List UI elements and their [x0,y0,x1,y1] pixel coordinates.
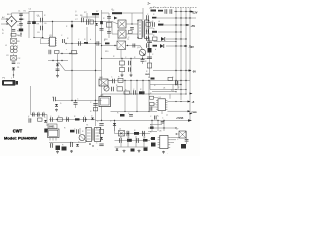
capacitor C5 bulk [37,16,43,22]
resistor R30 [153,45,158,47]
svg-text:R7: R7 [96,11,98,13]
capacitor C8 [82,18,84,22]
wire col x149.5 [149,38,151,78]
diode D9 [44,120,47,122]
capacitor C12 [97,41,99,45]
wire x150 stub [149,81,151,90]
capacitor C61 [137,138,139,143]
text label [70,142,72,144]
transistor Q6 [79,135,85,141]
wire U3 top [52,21,53,37]
resistor R45 [93,108,97,111]
text label [164,7,166,9]
wire y13b [122,8,143,20]
svg-text:L3: L3 [150,8,152,10]
svg-text:CWT: CWT [13,128,23,133]
IC U2 standby [48,129,60,141]
text +5VSB [176,118,184,120]
wire y84.5 rail [150,84,182,85]
wire T1 secondary stubs [149,22,153,34]
fuse holder block [2,80,18,86]
svg-text:T3: T3 [86,125,88,127]
text label [74,129,76,131]
text label [18,11,20,13]
capacitor CY1 [12,30,16,32]
wire T2 to Q3 [126,45,141,46]
ground drive2 [130,74,133,77]
wire mid verts [125,81,149,112]
text label [152,21,154,23]
svg-text:C2: C2 [17,25,19,27]
svg-text:GND: GND [145,74,150,76]
resistor R50 [58,118,63,121]
wire vert x87 [86,27,87,44]
wire vert x57.5 [57,54,59,75]
node dots chain [11,74,14,79]
transformer T1 core [143,21,144,38]
text label [172,77,174,79]
text under U1 [158,115,168,119]
wire y128 rail [148,127,176,129]
wire bus x186 [185,8,187,94]
svg-text:-12V: -12V [189,46,195,49]
text label [137,139,139,141]
capacitor C9 [87,19,89,25]
text note1 [75,15,78,21]
transformer T1 primary [138,20,142,39]
diode D2 [95,23,98,25]
text label [67,38,69,40]
capacitor C57 [99,144,103,146]
svg-text:c: c [66,49,67,51]
capacitor C50 [51,117,53,122]
wire Q3 down [142,56,144,64]
capacitor C26 [170,9,172,14]
text label [103,84,106,86]
ground sb4 [138,150,141,153]
text label [146,21,148,23]
text label [29,9,31,11]
svg-text:5H01: 5H01 [49,126,56,129]
resistor R18 [104,40,110,44]
resistor R39 [150,103,155,106]
text label [91,116,93,118]
svg-text:U1: U1 [163,88,165,90]
resistor R60 [131,149,135,152]
text -12V [189,46,195,49]
wire br verts [152,121,164,132]
text label [74,116,76,118]
wire y43.5 rail [71,43,101,44]
wire y100.5 rail [55,100,102,101]
wire y94.5 rail [102,93,187,94]
text label [50,116,52,118]
arrow pwrok [188,110,191,112]
wire AC line input stubs [1,16,8,25]
capacitor C19 [133,44,135,48]
wire U1 right2 [167,110,190,112]
ground drive1 [121,74,124,77]
text label [103,18,105,20]
wire T2 bottom [105,50,121,59]
capacitor C18 [130,28,134,30]
text label [145,61,147,63]
text label [111,9,113,11]
svg-text:Model: PUH400W: Model: PUH400W [4,135,37,140]
svg-text:R6: R6 [80,15,82,17]
text label [28,116,30,118]
wire rowC [164,24,189,25]
IC U3 DIP8 [48,35,57,46]
text label [144,137,146,139]
wire U6 right1 [170,137,179,142]
inductor L5 [119,131,125,137]
text label [142,132,144,134]
text label [66,49,67,51]
text +12V [192,11,198,14]
wire U1 verts [162,81,178,115]
arrow +5VSB [188,119,192,121]
ground br1 [162,151,165,154]
capacitor CX2 [11,56,21,61]
resistor R32 [147,63,151,68]
wire y91.7 rail [152,91,177,92]
wire bridge top to filter [12,13,22,16]
capacitor C4 [27,22,31,24]
capacitor C28 [153,22,155,27]
text label [150,8,152,10]
resistor R41 [117,87,123,91]
capacitor C36 [150,106,152,110]
text label [6,55,9,57]
capacitor C51 [67,117,69,122]
resistor R26 [152,17,157,19]
wire bus x181 [180,8,182,101]
text label [171,90,172,92]
capacitor C38 [113,79,115,84]
wire rowD [158,31,182,32]
resistor R43 [139,91,145,94]
wire bus x176 [175,8,177,86]
text label [52,97,54,99]
text label [134,130,136,132]
wire rowF [166,45,191,46]
resistor R59 [143,139,148,142]
text label [3,30,5,32]
svg-text:L4: L4 [158,21,160,23]
transistor Q5 [104,86,109,91]
wire y119.5 rail [49,119,96,120]
svg-text:D1: D1 [17,67,19,69]
text label [140,89,142,91]
svg-text:U7: U7 [176,129,178,131]
svg-text:R1: R1 [24,11,26,13]
capacitor C22 [129,67,131,71]
wire U1 left links [152,98,158,107]
wire bottom link [33,37,44,38]
text CWT [13,128,23,133]
text PG [192,101,195,104]
wire vert x95.5 [95,22,97,126]
resistor R40 [118,78,123,82]
capacitor C33 [147,57,152,59]
wire y58.5 rail [101,58,148,59]
wire x132 stub [131,13,133,24]
wire vert x114.5 [114,121,116,132]
wire y147 rail [115,146,149,148]
wire vert x29 [28,11,30,38]
text label [125,90,127,92]
resistor R44 [120,114,125,117]
text label [162,118,164,120]
resistor R27 [146,23,151,26]
diode D6 [161,37,165,41]
text label [113,56,115,58]
resistor R7 thick [84,12,99,15]
resistor R11 [84,42,88,44]
text label [84,39,86,41]
dot mid [75,100,76,101]
svg-text:+5VSB: +5VSB [176,118,184,120]
text label [44,15,46,17]
resistor R62 [150,127,154,129]
resistor R65 [181,144,186,149]
capacitor C14 [56,69,60,71]
text label [153,14,155,16]
diode D7 [160,44,164,48]
optocoupler U7 [179,131,186,138]
resistor R28 [152,31,157,33]
wire y70.5 rail [65,70,102,71]
arrow -5V [189,70,192,72]
capacitor C6 bulk [37,26,43,34]
resistor R58 [127,139,132,142]
text label [128,137,130,139]
varistor RV1 [11,39,21,44]
text label [153,29,155,31]
transistor Q1 [118,20,126,28]
capacitor C54 [51,143,53,148]
transistor Q3 [139,46,145,56]
text label [146,46,148,48]
capacitor C15 on x101.5 [100,29,104,31]
capacitor C2 [19,24,23,26]
resistor R17 [128,31,132,40]
wire y43 link [66,43,72,45]
wire U7 left [175,133,179,134]
text label [33,112,35,114]
arrow +12V [191,11,194,13]
text label [90,39,91,41]
resistor R61 [144,148,148,151]
text label [86,125,88,127]
dot sb [89,143,94,147]
text label [119,129,121,131]
capacitor C62 [155,116,165,124]
text label [61,35,63,37]
inductor L4 [158,24,164,26]
text label [185,132,187,134]
wire rowB [157,17,196,18]
text label [52,144,54,146]
text label [17,46,19,48]
wire y80.5 rail [108,80,190,81]
diode D13 [113,123,116,125]
capacitor C25 [165,9,167,14]
resistor R21 [120,68,125,72]
svg-text:PWR: PWR [192,112,198,114]
arrow +5out [188,101,191,103]
text label [96,143,98,145]
resistor R25 [158,10,163,12]
wire y142.5 rail [49,142,86,144]
wire y53.5 [60,53,78,54]
svg-text:U3: U3 [49,37,51,39]
text label [177,139,179,141]
capacitor C40 [134,90,136,94]
text label [150,139,152,141]
resistor R12 [55,51,60,54]
wire vert x101.5 [101,10,103,121]
svg-text:C4: C4 [29,9,31,11]
wire rowA [174,11,193,12]
wire y140.5 rail [115,140,151,142]
text label [24,11,26,13]
svg-text:Q5: Q5 [103,84,106,86]
svg-text:an: an [153,7,155,9]
wire grid verts [121,136,144,147]
text label [157,8,159,10]
wire Q to T1 [126,23,138,34]
capacitor C29 [147,29,149,33]
text label [90,111,92,113]
text label [152,54,154,56]
resistor R55 [62,147,67,151]
text label [97,121,99,123]
capacitor C46 [38,113,40,117]
wire diag [59,62,66,71]
text label [134,57,136,59]
capacitor C47 [43,113,45,117]
IC U6 supervisor [158,135,171,148]
wire top link [21,12,43,14]
wire chain3 [13,70,15,75]
resistor R3 [19,19,25,22]
text label [78,39,80,41]
svg-text:R19: R19 [105,51,108,53]
wire y60.5 [48,60,68,61]
text label [111,77,113,79]
text label [84,116,86,118]
text Z note [148,3,156,9]
wire +5VSB rail [96,120,192,121]
text label [5,45,7,47]
capacitor C13 [49,50,51,54]
text label [146,38,148,40]
diode D3 arrow [114,17,118,20]
node br dots [163,127,176,128]
text label [38,112,40,114]
resistor R13 [72,51,77,54]
bridge rectifier BD1 [6,14,17,27]
capacitor C45 [33,113,35,117]
capacitor C48 [28,117,31,123]
wire bus x190 [189,8,191,121]
capacitor C60 [120,138,122,143]
node T1 pins [137,20,149,38]
svg-text:+5V: +5V [191,25,196,28]
text label [17,31,19,33]
wire main +310V rail [17,21,112,23]
text col marks [145,74,150,76]
text label [17,25,19,27]
text label [147,14,149,16]
inductor L1 common-mode choke [10,46,17,53]
capacitor C56 [99,124,103,126]
text label [146,71,148,73]
capacitor C59 [143,131,145,136]
text label [120,137,122,139]
svg-text:C6: C6 [44,23,46,25]
resistor R47 [44,129,47,133]
wire y133.5 rail [115,133,151,134]
transistor Q2 [118,30,126,38]
svg-text:U4: U4 [100,77,102,79]
text label [170,7,172,9]
resistor R63 [151,137,155,140]
text label [49,37,51,39]
diode D4 [56,64,59,66]
capacitor C27 [147,15,149,19]
svg-text:L1: L1 [5,45,7,47]
text -5V [192,71,196,74]
svg-text:d: d [90,39,91,41]
text label [96,128,98,130]
text label [60,103,62,105]
svg-text:on: on [166,115,168,117]
wire bridge bottom [11,27,13,38]
ground x57.5 [56,75,59,78]
resistor R56 [99,130,103,134]
text label [148,77,150,79]
wire y89.5 rail [150,89,187,90]
resistor R46 [38,118,43,121]
capacitor C31 [147,43,149,47]
capacitor C44 [93,104,97,106]
resistor R20 [120,61,125,65]
capacitor C42 [54,97,56,101]
text label [150,125,152,127]
wire verts drive [122,59,131,75]
text label [116,85,118,87]
text label [37,24,39,26]
text label [58,116,60,118]
text label [104,39,107,41]
text label [178,87,180,89]
capacitor C20 [141,60,145,62]
wire main to Q [112,22,118,35]
resistor R31 [148,48,152,53]
wire rowE [166,38,187,39]
text label [64,128,66,130]
text label [44,23,46,25]
text label [118,77,120,79]
text +5V [191,25,196,28]
ground sb2 [70,150,73,153]
text label [159,131,161,133]
text label [77,99,79,101]
text label [80,15,82,17]
